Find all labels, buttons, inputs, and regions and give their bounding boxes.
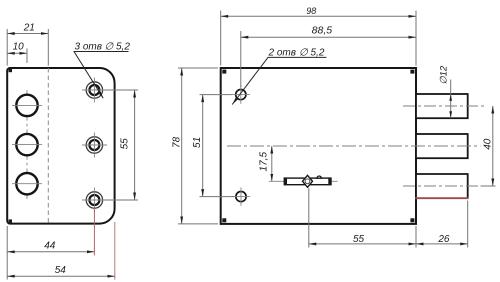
dim 21 [7, 22, 48, 65]
svg-text:40: 40 [483, 138, 494, 150]
big hole B3 [12, 173, 42, 194]
dim 55 bottom [309, 226, 416, 248]
dim 54 [7, 222, 115, 280]
dim d12 [438, 65, 452, 118]
svg-text:88,5: 88,5 [312, 24, 333, 36]
corner mark bottom-right [410, 218, 414, 222]
dim 40 [481, 106, 496, 186]
countersunk hole C2 [82, 133, 107, 158]
corner mark top-left [9, 69, 12, 72]
svg-text:10: 10 [13, 42, 25, 53]
body outline [221, 68, 416, 224]
big hole B2 [12, 134, 42, 155]
lever centerline [269, 180, 338, 182]
dim 44 [7, 206, 94, 280]
svg-text:21: 21 [23, 22, 35, 33]
dim 10 [7, 42, 27, 64]
svg-text:∅12: ∅12 [438, 65, 449, 85]
corner mark bottom-left [9, 219, 12, 222]
bend line (dashed) [47, 68, 49, 224]
dim 55 left view [104, 90, 138, 200]
dim 17,5 [259, 146, 272, 181]
corner mark top-right [410, 70, 414, 74]
plate outline [7, 68, 114, 224]
svg-text:26: 26 [437, 234, 450, 245]
centerline bolt P3 [403, 185, 481, 187]
dim 88,5 [241, 24, 416, 87]
svg-text:44: 44 [44, 240, 56, 251]
dim 51 [192, 95, 234, 197]
svg-text:17,5: 17,5 [259, 152, 270, 172]
svg-text:98: 98 [306, 6, 316, 16]
hole callout 2 otv d5,2 [232, 48, 326, 105]
svg-text:∅ 5,2: ∅ 5,2 [105, 42, 131, 53]
svg-text:54: 54 [55, 265, 67, 276]
countersunk hole C3 [82, 188, 107, 213]
svg-text:55: 55 [120, 138, 131, 150]
dim 98 [221, 6, 416, 66]
lever bar [284, 175, 331, 187]
red edge of bottom bolt [415, 197, 469, 199]
small hole H1 [232, 86, 251, 104]
countersunk hole C1 [82, 78, 107, 103]
bolt P3 (bottom) [416, 174, 468, 198]
hole callout 3 otv d5,2 [74, 42, 131, 99]
centerline bolt P1 [403, 105, 487, 107]
lever extension down [308, 188, 310, 247]
centerline through big holes [26, 90, 28, 120]
big hole B1 [12, 95, 42, 116]
svg-text:78: 78 [172, 136, 183, 148]
svg-text:51: 51 [192, 137, 203, 148]
dim 78 [172, 68, 218, 224]
main centerline [227, 145, 481, 147]
corner mark bottom-left [222, 218, 226, 222]
small hole H2 [232, 188, 251, 206]
bolt P2 (middle) [416, 134, 468, 158]
corner mark top-left [222, 70, 226, 74]
bolt P1 (top) [416, 94, 468, 118]
svg-text:3 отв: 3 отв [75, 42, 102, 53]
dim 26 [416, 201, 468, 248]
svg-text:55: 55 [353, 234, 365, 245]
